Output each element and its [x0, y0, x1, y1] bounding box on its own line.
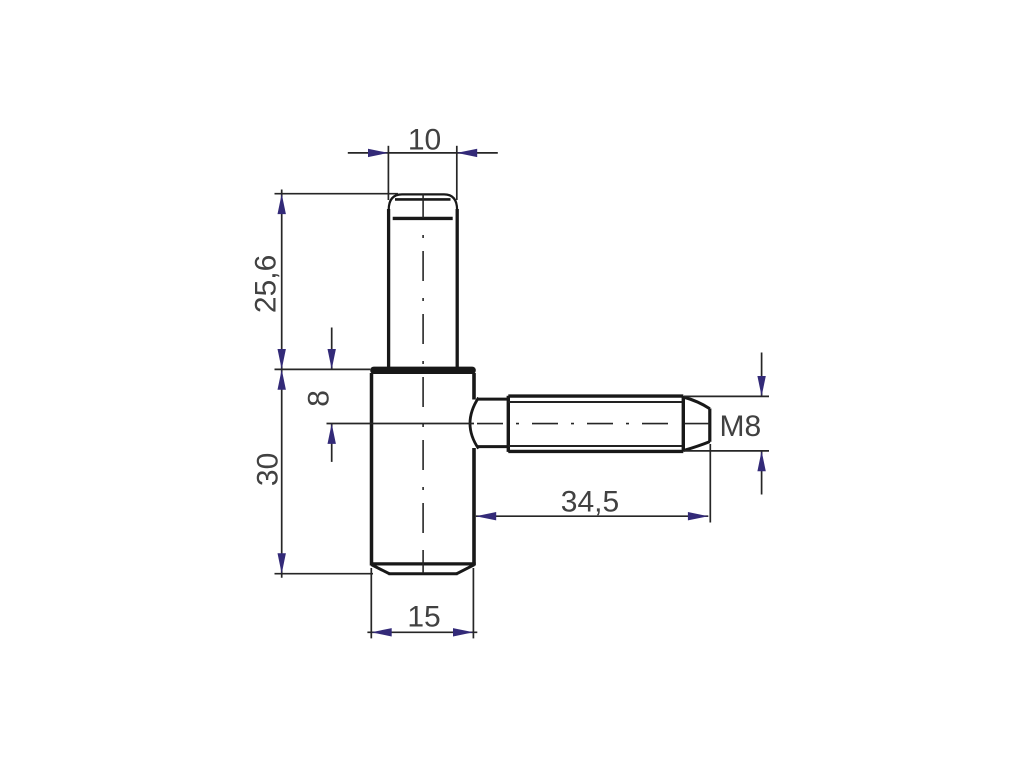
dimM8 arrow lower	[757, 451, 765, 471]
dim30 arrow top	[278, 369, 286, 389]
thread end line	[682, 396, 685, 451]
shoulder extension line	[275, 368, 371, 370]
dim25.6 arrow top	[278, 194, 286, 214]
rod top outer edge	[508, 394, 683, 397]
pin top chamfer edge line	[395, 198, 451, 201]
dim8 lower tail	[331, 424, 333, 462]
body right side lower segment	[472, 448, 476, 566]
bottom chamfer face line	[389, 572, 458, 575]
dim8 arrow lower	[328, 424, 336, 444]
thread root line bottom	[508, 445, 683, 447]
dim34.5 extension line right	[709, 444, 711, 523]
dim15 dimension line	[367, 631, 477, 633]
thread start line	[507, 396, 510, 452]
neck bottom edge	[477, 445, 508, 448]
shoulder top face bar	[370, 367, 476, 374]
pin dome tangent line	[393, 217, 453, 220]
dim25.6 dimension line	[281, 190, 283, 370]
horizontal rod center line	[477, 423, 681, 425]
svg-text:25,6: 25,6	[250, 255, 283, 313]
body left side	[370, 373, 374, 566]
pin right side	[456, 209, 459, 368]
thread root line top	[508, 401, 683, 403]
dim30 dimension line	[281, 369, 283, 577]
dim10 arrow left	[368, 149, 388, 157]
dim34.5 dimension line	[476, 515, 709, 517]
dim8 arrow upper	[328, 349, 336, 369]
dim8 axis extension line	[327, 423, 475, 425]
vertical center line	[422, 194, 424, 218]
svg-text:34,5: 34,5	[561, 486, 619, 519]
svg-text:M8: M8	[720, 410, 762, 443]
svg-text:8: 8	[303, 390, 336, 407]
dimM8 arrow upper	[757, 376, 765, 396]
dim34.5 arrow left	[476, 512, 496, 520]
pin left side	[387, 209, 390, 368]
tip face	[708, 409, 711, 442]
dim15 extension line right	[472, 568, 474, 638]
dimM8 lower tail	[761, 451, 763, 495]
svg-text:15: 15	[407, 601, 440, 634]
neck fillet arc (rod meets body)	[470, 398, 479, 449]
dim10 extension line left	[387, 146, 389, 200]
dim15 extension line left	[370, 568, 372, 638]
dim10 arrow right	[457, 149, 477, 157]
dim15 arrow right	[453, 628, 473, 636]
dim10 extension line right	[456, 146, 458, 200]
rod bottom outer edge	[508, 450, 683, 453]
tip chamfer bottom	[683, 442, 710, 451]
dim34.5 arrow right	[688, 512, 708, 520]
dimM8 extension line top	[684, 395, 769, 397]
pin top silhouette (rounded corners + top face)	[389, 194, 457, 210]
body bottom edge	[370, 562, 475, 565]
tip chamfer top	[683, 397, 710, 409]
svg-text:30: 30	[252, 453, 285, 486]
dim30 arrow bottom	[278, 553, 286, 573]
dim8 upper tail	[331, 328, 333, 370]
dimM8 extension line bottom	[684, 450, 769, 452]
svg-text:10: 10	[408, 123, 441, 156]
dim15 arrow left	[371, 628, 391, 636]
bottom chamfer left slant	[372, 565, 390, 574]
dimM8 upper tail	[761, 353, 763, 397]
dim25.6 extension line top (pin top)	[275, 193, 399, 195]
dim10 dimension line	[348, 152, 498, 154]
body right side upper segment	[472, 373, 476, 400]
neck top edge	[477, 398, 508, 401]
dim25.6 arrow bottom	[278, 349, 286, 369]
dim30 extension line bottom	[275, 573, 374, 575]
bottom chamfer right slant	[457, 565, 475, 574]
